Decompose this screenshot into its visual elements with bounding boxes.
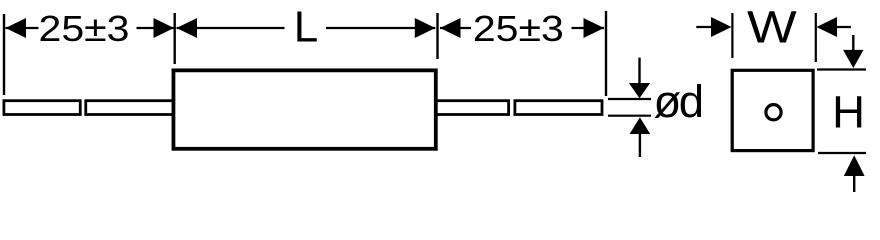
arrowhead left (L) <box>177 18 198 38</box>
extension line H bottom <box>818 152 866 154</box>
dimension W arrow right <box>817 17 851 37</box>
svg-text:25±3: 25±3 <box>473 9 564 49</box>
dimension W arrow left <box>696 17 731 37</box>
svg-text:W: W <box>747 3 798 53</box>
lead cross-section circle <box>766 105 781 120</box>
arrowhead right (L) <box>415 18 436 38</box>
svg-text:25±3: 25±3 <box>39 9 130 49</box>
svg-text:L: L <box>294 3 318 52</box>
dimension line 25±3 left <box>6 27 174 29</box>
extension line body right <box>436 13 438 59</box>
extension line H top <box>817 68 866 70</box>
extension line left lead tip <box>3 14 5 95</box>
svg-text:H: H <box>832 87 865 138</box>
arrowhead right (25±3 left, inner) <box>154 18 175 38</box>
resistor body <box>173 70 435 148</box>
arrowhead left (25±3 left, outer) <box>6 18 27 38</box>
extension line square right <box>815 13 817 62</box>
end view square <box>732 70 813 150</box>
extension line ød top <box>608 98 651 100</box>
arrow down (ød) <box>629 58 650 99</box>
lead segment inner left <box>86 101 174 115</box>
lead segment inner right <box>436 101 509 115</box>
arrowhead right (25±3 right, outer) <box>584 18 605 38</box>
svg-text:ød: ød <box>654 76 702 127</box>
arrow up (H) <box>844 155 865 192</box>
arrow up (ød) <box>630 117 651 157</box>
dimension line 25±3 right <box>440 27 604 29</box>
extension line ød bottom <box>608 115 651 117</box>
extension line square left <box>731 13 733 58</box>
lead segment outer left <box>4 101 80 115</box>
arrow down (H) <box>843 35 863 68</box>
extension line right lead tip <box>605 11 607 96</box>
extension line body left <box>173 13 175 64</box>
dimension line L <box>177 27 436 29</box>
arrowhead left (25±3 right, inner) <box>440 18 461 38</box>
lead segment outer right <box>515 101 602 115</box>
